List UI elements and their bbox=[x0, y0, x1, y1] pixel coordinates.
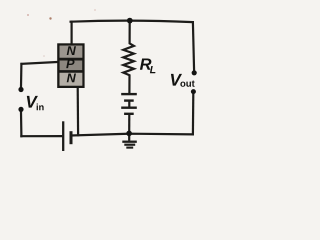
node Vout terminal upper bbox=[192, 70, 197, 75]
battery B1 (horizontal, in bottom rail) bbox=[63, 121, 71, 151]
wire base from Vin corner bbox=[22, 62, 59, 64]
wire Vin vertical lower bbox=[20, 112, 23, 136]
battery B2 (two cells, below RL) bbox=[121, 94, 137, 133]
transistor Q1 NPN sandwich bbox=[58, 45, 83, 87]
wire Vout lower to bottom rail bbox=[192, 94, 195, 135]
node junction on top rail bbox=[127, 18, 133, 24]
node junction bottom rail / ground bbox=[126, 131, 132, 137]
ground bbox=[122, 133, 137, 147]
node Vin terminal lower bbox=[18, 107, 23, 112]
label RL bbox=[140, 58, 156, 73]
wire right drop to Vout bbox=[193, 22, 194, 71]
wire top rail bbox=[71, 21, 193, 23]
wire collector drop bbox=[70, 22, 72, 46]
wire Vin vertical upper bbox=[20, 64, 23, 87]
node Vin terminal upper bbox=[18, 87, 23, 92]
wire bottom rail left bbox=[21, 135, 62, 137]
node Vout terminal lower bbox=[191, 89, 196, 94]
resistor RL bbox=[123, 21, 134, 94]
label Vin bbox=[27, 96, 44, 110]
wire bottom rail right bbox=[71, 134, 193, 136]
label Vout bbox=[171, 74, 195, 87]
wire emitter drop bbox=[77, 87, 80, 135]
